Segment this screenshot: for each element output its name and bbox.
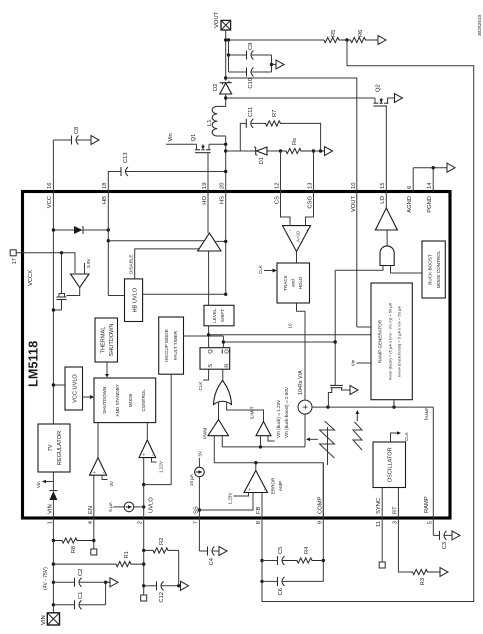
ground (R6) (378, 36, 386, 45)
wire VIN rail (52, 500, 54, 613)
wire Qbar to AND (335, 266, 383, 271)
capacitor C5 (262, 560, 277, 562)
svg-text:7: 7 (193, 521, 199, 524)
ground (Q2) (395, 94, 403, 103)
svg-text:5 µA: 5 µA (108, 501, 113, 511)
svg-text:SYNC: SYNC (376, 498, 382, 514)
svg-text:10•Rs V/A: 10•Rs V/A (298, 370, 304, 395)
wire COMP (322, 463, 324, 582)
svg-text:MODE: MODE (128, 393, 133, 407)
node Vin internal tap (46, 481, 53, 483)
svg-text:VCC: VCC (47, 196, 53, 208)
svg-text:+: + (142, 453, 147, 456)
terminal VOUT (221, 20, 231, 30)
svg-text:18: 18 (102, 183, 108, 189)
snubber C11 + R7 (240, 123, 246, 151)
ground (ramp FET) (350, 386, 358, 395)
pad (UVLO) (141, 595, 147, 601)
svg-text:COMP: COMP (317, 496, 323, 514)
svg-text:Vth (buck) = 1.25V: Vth (buck) = 1.25V (276, 399, 281, 438)
svg-text:14: 14 (427, 182, 433, 189)
svg-text:1: 1 (47, 521, 53, 524)
wire CSG external (313, 151, 315, 192)
svg-text:S: S (208, 364, 214, 368)
svg-text:AGND: AGND (407, 196, 413, 213)
svg-text:+: + (92, 471, 97, 474)
current source 10uA (195, 467, 205, 477)
wire sawtooth arrow to ramp net (356, 414, 358, 421)
capacitor C9 (229, 54, 247, 56)
resistor R8 (53, 538, 93, 543)
wire VOUT pin sense (226, 78, 357, 327)
svg-text:C4: C4 (209, 557, 215, 565)
svg-text:C8: C8 (74, 127, 80, 134)
resistor R6 (347, 37, 378, 42)
resistor R3 (411, 569, 440, 574)
svg-text:D1: D1 (259, 157, 265, 164)
comparator PWM (208, 420, 229, 436)
wire PWM comp to OR (218, 402, 220, 420)
block OSCILLATOR (373, 442, 406, 488)
capacitor C2 (53, 581, 74, 583)
svg-text:VIN: VIN (41, 615, 47, 625)
svg-text:VCC UVLO: VCC UVLO (73, 374, 79, 403)
op-amp LO driver (375, 208, 397, 230)
transistor VCCX switch (61, 300, 63, 311)
waveform icon PWM ramp (320, 421, 335, 458)
wire HB to driver top (108, 240, 204, 242)
svg-text:HOLD: HOLD (298, 276, 303, 289)
svg-text:OSCILLATOR: OSCILLATOR (388, 447, 394, 482)
wire R2/C12 join + ground (178, 550, 180, 585)
svg-text:VOUT: VOUT (214, 11, 220, 28)
comparator VCCX 3.9V (71, 274, 90, 288)
node 3V reference (102, 475, 108, 479)
svg-text:VIN: VIN (47, 504, 53, 514)
node DISABLE (135, 249, 199, 279)
wire current sense signal to PWM/ILIMIT (222, 436, 305, 447)
svg-text:C13: C13 (123, 152, 129, 163)
svg-text:RAMP: RAMP (424, 496, 430, 513)
svg-text:7V: 7V (48, 444, 54, 451)
wire RAMP (432, 407, 434, 535)
wire VCCX (16, 253, 75, 273)
wire SS to error amp + input (199, 493, 253, 511)
diode D1 (freewheel schottky) + sense chain (226, 150, 256, 152)
svg-text:BUCK-BOOST: BUCK-BOOST (428, 254, 433, 285)
block 7V REGULATOR (38, 424, 70, 472)
capacitor C1 (53, 604, 74, 606)
svg-text:UVLO: UVLO (149, 497, 155, 513)
svg-text:PWM: PWM (203, 428, 208, 439)
svg-text:Q: Q (225, 349, 231, 354)
capacitor C10 (229, 71, 247, 73)
capacitor C8 (53, 139, 71, 141)
svg-text:FAULT TIMER: FAULT TIMER (173, 330, 178, 360)
svg-text:MODE CONTROL: MODE CONTROL (436, 250, 441, 288)
wire thermal to control (arrow) (106, 362, 108, 374)
comparator STANDBY (UVLO) (139, 440, 156, 458)
resistor R2 (144, 548, 179, 553)
svg-text:CS: CS (275, 196, 281, 204)
wire CS to A=10 (281, 192, 291, 226)
svg-text:R5: R5 (331, 30, 337, 37)
wire UVLO to hiccup timer (144, 374, 172, 484)
ground (C4) (219, 547, 227, 556)
svg-text:5V: 5V (197, 450, 202, 457)
wire HO to Q1 gate (207, 153, 209, 233)
wire caps to ground (271, 55, 273, 72)
svg-text:VCCX: VCCX (28, 270, 34, 286)
wire level shift to driver (208, 251, 210, 305)
resistor R1 (53, 562, 143, 567)
block HB UVLO (125, 279, 143, 322)
svg-text:LO: LO (380, 196, 386, 204)
wire error amp out (255, 463, 257, 471)
op-amp HO driver (198, 233, 221, 251)
wire VOUT caps branch (226, 39, 322, 41)
wire HS / switch node rail (225, 136, 227, 294)
wire EN comp out (97, 423, 99, 458)
diode VIN internal (49, 491, 57, 500)
svg-text:C2: C2 (78, 569, 84, 576)
svg-text:AND STANDBY: AND STANDBY (115, 384, 120, 416)
wire A=10 out to track and hold (296, 252, 298, 264)
node CLK oscillator output (391, 433, 398, 442)
svg-text:3: 3 (392, 521, 398, 524)
wire CSG to A=10 (306, 192, 314, 226)
block HICCUP MODE FAULT TIMER (159, 317, 184, 374)
pad (SYNC) (379, 562, 385, 568)
ground (C3) (452, 531, 460, 540)
svg-text:C12: C12 (159, 592, 165, 603)
transistor ramp discharge FET (328, 388, 331, 407)
svg-text:IRAMP (buck-boost) = 5 µA x VI: IRAMP (buck-boost) = 5 µA x VIN + 50 µA (397, 306, 402, 377)
svg-text:HO: HO (202, 196, 208, 205)
svg-text:5: 5 (427, 521, 433, 524)
svg-text:10: 10 (351, 183, 357, 189)
svg-text:1.22V: 1.22V (159, 460, 164, 473)
svg-text:R2: R2 (159, 538, 165, 545)
svg-text:D2: D2 (213, 84, 219, 91)
svg-text:AMP: AMP (278, 481, 283, 491)
wire ILIMIT comp to OR (227, 402, 264, 422)
svg-text:C5: C5 (278, 547, 284, 554)
block SHUTDOWN AND STANDBY MODE CONTROL (94, 378, 156, 423)
svg-text:8: 8 (256, 521, 262, 524)
svg-text:2: 2 (138, 521, 144, 524)
svg-text:DISABLE: DISABLE (129, 255, 134, 274)
wire SS (198, 477, 200, 551)
svg-text:RAMP GENERATOR: RAMP GENERATOR (378, 319, 383, 363)
wire UVLO (143, 458, 145, 595)
svg-text:+: + (248, 488, 253, 491)
svg-text:(4V - 75V): (4V - 75V) (43, 567, 49, 590)
svg-text:Q2: Q2 (376, 84, 382, 92)
wire summing node to ramp net (312, 406, 433, 408)
resistor Rs (284, 148, 314, 153)
svg-text:EN: EN (88, 506, 94, 514)
svg-text:12: 12 (275, 183, 281, 189)
ground (R3) (440, 568, 448, 577)
svg-text:HB: HB (102, 196, 108, 204)
wire VCC UVLO to control (arrow) (83, 396, 91, 398)
svg-text:TRACK: TRACK (283, 274, 288, 291)
svg-text:Q1: Q1 (191, 134, 197, 142)
svg-text:A=10: A=10 (296, 231, 301, 242)
svg-text:CSG: CSG (308, 196, 314, 209)
svg-text:FB: FB (256, 506, 262, 514)
svg-text:17: 17 (12, 258, 18, 264)
capacitor C13 (bootstrap) (120, 167, 122, 176)
pad (VCCX) (10, 250, 16, 256)
wire HB to HB UVLO (108, 295, 124, 297)
capacitor C6 (262, 580, 277, 582)
terminal VIN (47, 613, 59, 625)
svg-text:R3: R3 (420, 578, 426, 585)
svg-text:C3: C3 (442, 542, 448, 549)
wire EN (93, 475, 95, 549)
summing node (298, 400, 312, 414)
svg-text:C1: C1 (78, 592, 84, 599)
svg-text:6: 6 (407, 186, 413, 189)
svg-text:30252610: 30252610 (477, 14, 483, 36)
svg-text:PGND: PGND (427, 196, 433, 213)
block THERMAL SHUTDOWN (95, 318, 118, 362)
svg-text:L1: L1 (207, 120, 213, 126)
svg-text:1.23V: 1.23V (228, 492, 233, 505)
svg-text:15: 15 (380, 183, 386, 189)
svg-text:+: + (301, 404, 312, 410)
svg-text:10 µA: 10 µA (189, 473, 194, 486)
node 1.22V reference (152, 458, 157, 462)
comparator EN (90, 458, 107, 476)
block VCC UVLO (65, 367, 83, 410)
wire HB internal rail (107, 192, 109, 296)
resistor R5 (322, 37, 346, 42)
inductor L1 (212, 106, 226, 136)
wire standby comp out (146, 423, 148, 440)
wire waveform arrow to comparator line (310, 438, 318, 440)
capacitor C4 (199, 550, 207, 552)
svg-text:SHUTDOWN: SHUTDOWN (109, 324, 115, 357)
svg-text:THERMAL: THERMAL (101, 327, 107, 354)
svg-text:HICCUP MODE: HICCUP MODE (164, 329, 169, 362)
svg-text:HB UVLO: HB UVLO (133, 287, 139, 312)
wire hiccup to latch Qbar node (184, 335, 224, 337)
svg-text:19: 19 (202, 183, 208, 189)
svg-text:R8: R8 (71, 546, 77, 553)
svg-text:VOUT: VOUT (351, 196, 357, 213)
svg-text:R7: R7 (272, 110, 278, 117)
IC block border LM5118 (23, 192, 451, 519)
block TRACK and HOLD (277, 263, 310, 303)
svg-text:R6: R6 (358, 30, 364, 37)
transistor Q2 (boost FET) (374, 105, 388, 107)
latch SR (200, 348, 230, 370)
svg-text:C6: C6 (278, 588, 284, 595)
wire C1 to C2 join + ground (105, 582, 107, 605)
wire Q1 source to HS rail (209, 143, 226, 145)
comparator ILIMIT (256, 422, 271, 436)
block BUCK-BOOST MODE CONTROL (422, 241, 445, 298)
wire FB (261, 493, 263, 602)
svg-text:16: 16 (47, 183, 53, 189)
svg-text:IRAMP (buck) = (5 µA x (VIN -: IRAMP (buck) = (5 µA x (VIN - VOUT)) + 5… (388, 302, 393, 380)
svg-text:CONTROL: CONTROL (141, 389, 146, 412)
wire Q1 drain to Vin (166, 143, 197, 145)
svg-text:CLK: CLK (198, 381, 203, 391)
node Vth thresholds (268, 436, 275, 441)
waveform icon sawtooth (353, 422, 362, 450)
svg-text:CLK: CLK (404, 431, 409, 441)
svg-text:10: 10 (288, 323, 293, 329)
svg-text:ILIMIT: ILIMIT (250, 406, 255, 419)
wire VOUT rail (225, 32, 227, 81)
svg-text:Q: Q (208, 349, 214, 354)
svg-text:REGULATOR: REGULATOR (57, 431, 63, 465)
ground (AGND PGND) (447, 163, 455, 172)
wire VCCX switch to VCC (53, 309, 61, 311)
svg-text:Vin: Vin (351, 359, 356, 366)
svg-text:C11: C11 (248, 107, 254, 117)
wire HB UVLO sense to HS (143, 293, 226, 295)
wire Q2 drain to switch node (226, 97, 375, 99)
node 3.9V reference (84, 263, 86, 274)
wire SYNC (381, 488, 383, 563)
svg-text:3.9V: 3.9V (86, 258, 91, 268)
svg-text:HS: HS (220, 196, 226, 204)
svg-text:LEVEL: LEVEL (212, 308, 217, 323)
capacitor C12 (144, 585, 156, 587)
svg-text:LM5118: LM5118 (27, 341, 41, 387)
wire latch Q to level shift / ramp gen (208, 326, 210, 348)
svg-text:Vin: Vin (168, 133, 174, 141)
gate AND (LO path) (380, 246, 394, 266)
wire OR out to latch R (222, 369, 224, 380)
svg-text:SHUTDOWN: SHUTDOWN (102, 387, 107, 414)
diode D2 (boost diode, schottky) (220, 83, 232, 94)
svg-text:R1: R1 (124, 551, 130, 558)
gate OR (reset) (214, 381, 232, 405)
resistor R4 (283, 558, 324, 563)
svg-text:CLK: CLK (258, 264, 263, 274)
ground (C9 C10) (276, 60, 284, 69)
svg-text:RT: RT (392, 506, 398, 514)
ground (sense chain) (325, 147, 333, 156)
svg-text:Vth (buck-boost) = 2.50V: Vth (buck-boost) = 2.50V (284, 386, 289, 438)
wire RT (398, 488, 412, 573)
op-amp ERROR AMP (244, 470, 268, 492)
wire COMP net to error amp and PWM (214, 436, 323, 518)
wire L1 to D2 (225, 94, 227, 107)
svg-text:11: 11 (376, 521, 382, 527)
wire LO to Q2 gate (385, 106, 387, 208)
wire latch Qbar to AND / ramp FET (222, 336, 224, 348)
wire HB external (108, 172, 120, 193)
svg-text:SHIFT: SHIFT (220, 309, 225, 322)
svg-text:+: + (305, 229, 310, 232)
wire VOUT into ramp gen (357, 326, 371, 328)
wire ramp gen out to ramp net (393, 400, 395, 407)
transistor Q1 (buck FET) (195, 152, 211, 154)
wire VCC to VCC UVLO (53, 384, 65, 386)
wire AND to LO driver (386, 230, 388, 246)
svg-text:and: and (291, 279, 296, 287)
pad (EN) (91, 549, 97, 555)
svg-text:13: 13 (308, 183, 314, 189)
block RAMP GENERATOR (371, 283, 412, 400)
diode VCC to HB (bootstrap) (53, 229, 74, 231)
svg-text:3V: 3V (109, 480, 114, 487)
wire VCC rail (52, 140, 54, 424)
svg-text:Rs: Rs (292, 138, 298, 145)
svg-text:20: 20 (220, 183, 226, 189)
wire T and H out to summing node (297, 303, 306, 400)
svg-text:Vin: Vin (36, 481, 41, 488)
capacitor C3 (433, 534, 439, 536)
svg-text:ERROR: ERROR (271, 477, 276, 494)
wire CS external (280, 151, 282, 192)
ground (C1 C2) (110, 578, 118, 587)
svg-text:R: R (225, 364, 231, 368)
wire AGND/PGND to ground (412, 168, 414, 192)
svg-text:C9: C9 (248, 43, 254, 50)
svg-text:9: 9 (317, 521, 323, 524)
wire driver return to HS (215, 240, 225, 242)
block LEVEL SHIFT (204, 305, 234, 326)
wire mode control to AND (391, 266, 423, 274)
svg-text:C10: C10 (248, 78, 254, 89)
ground (C12 R2) (181, 581, 189, 590)
wire Q2 source to ground (388, 97, 395, 99)
amplifier A=10 current sense (283, 226, 311, 252)
wire feedback trace to FB (262, 40, 474, 602)
svg-text:R4: R4 (304, 546, 310, 554)
ground (C8) (91, 136, 99, 145)
